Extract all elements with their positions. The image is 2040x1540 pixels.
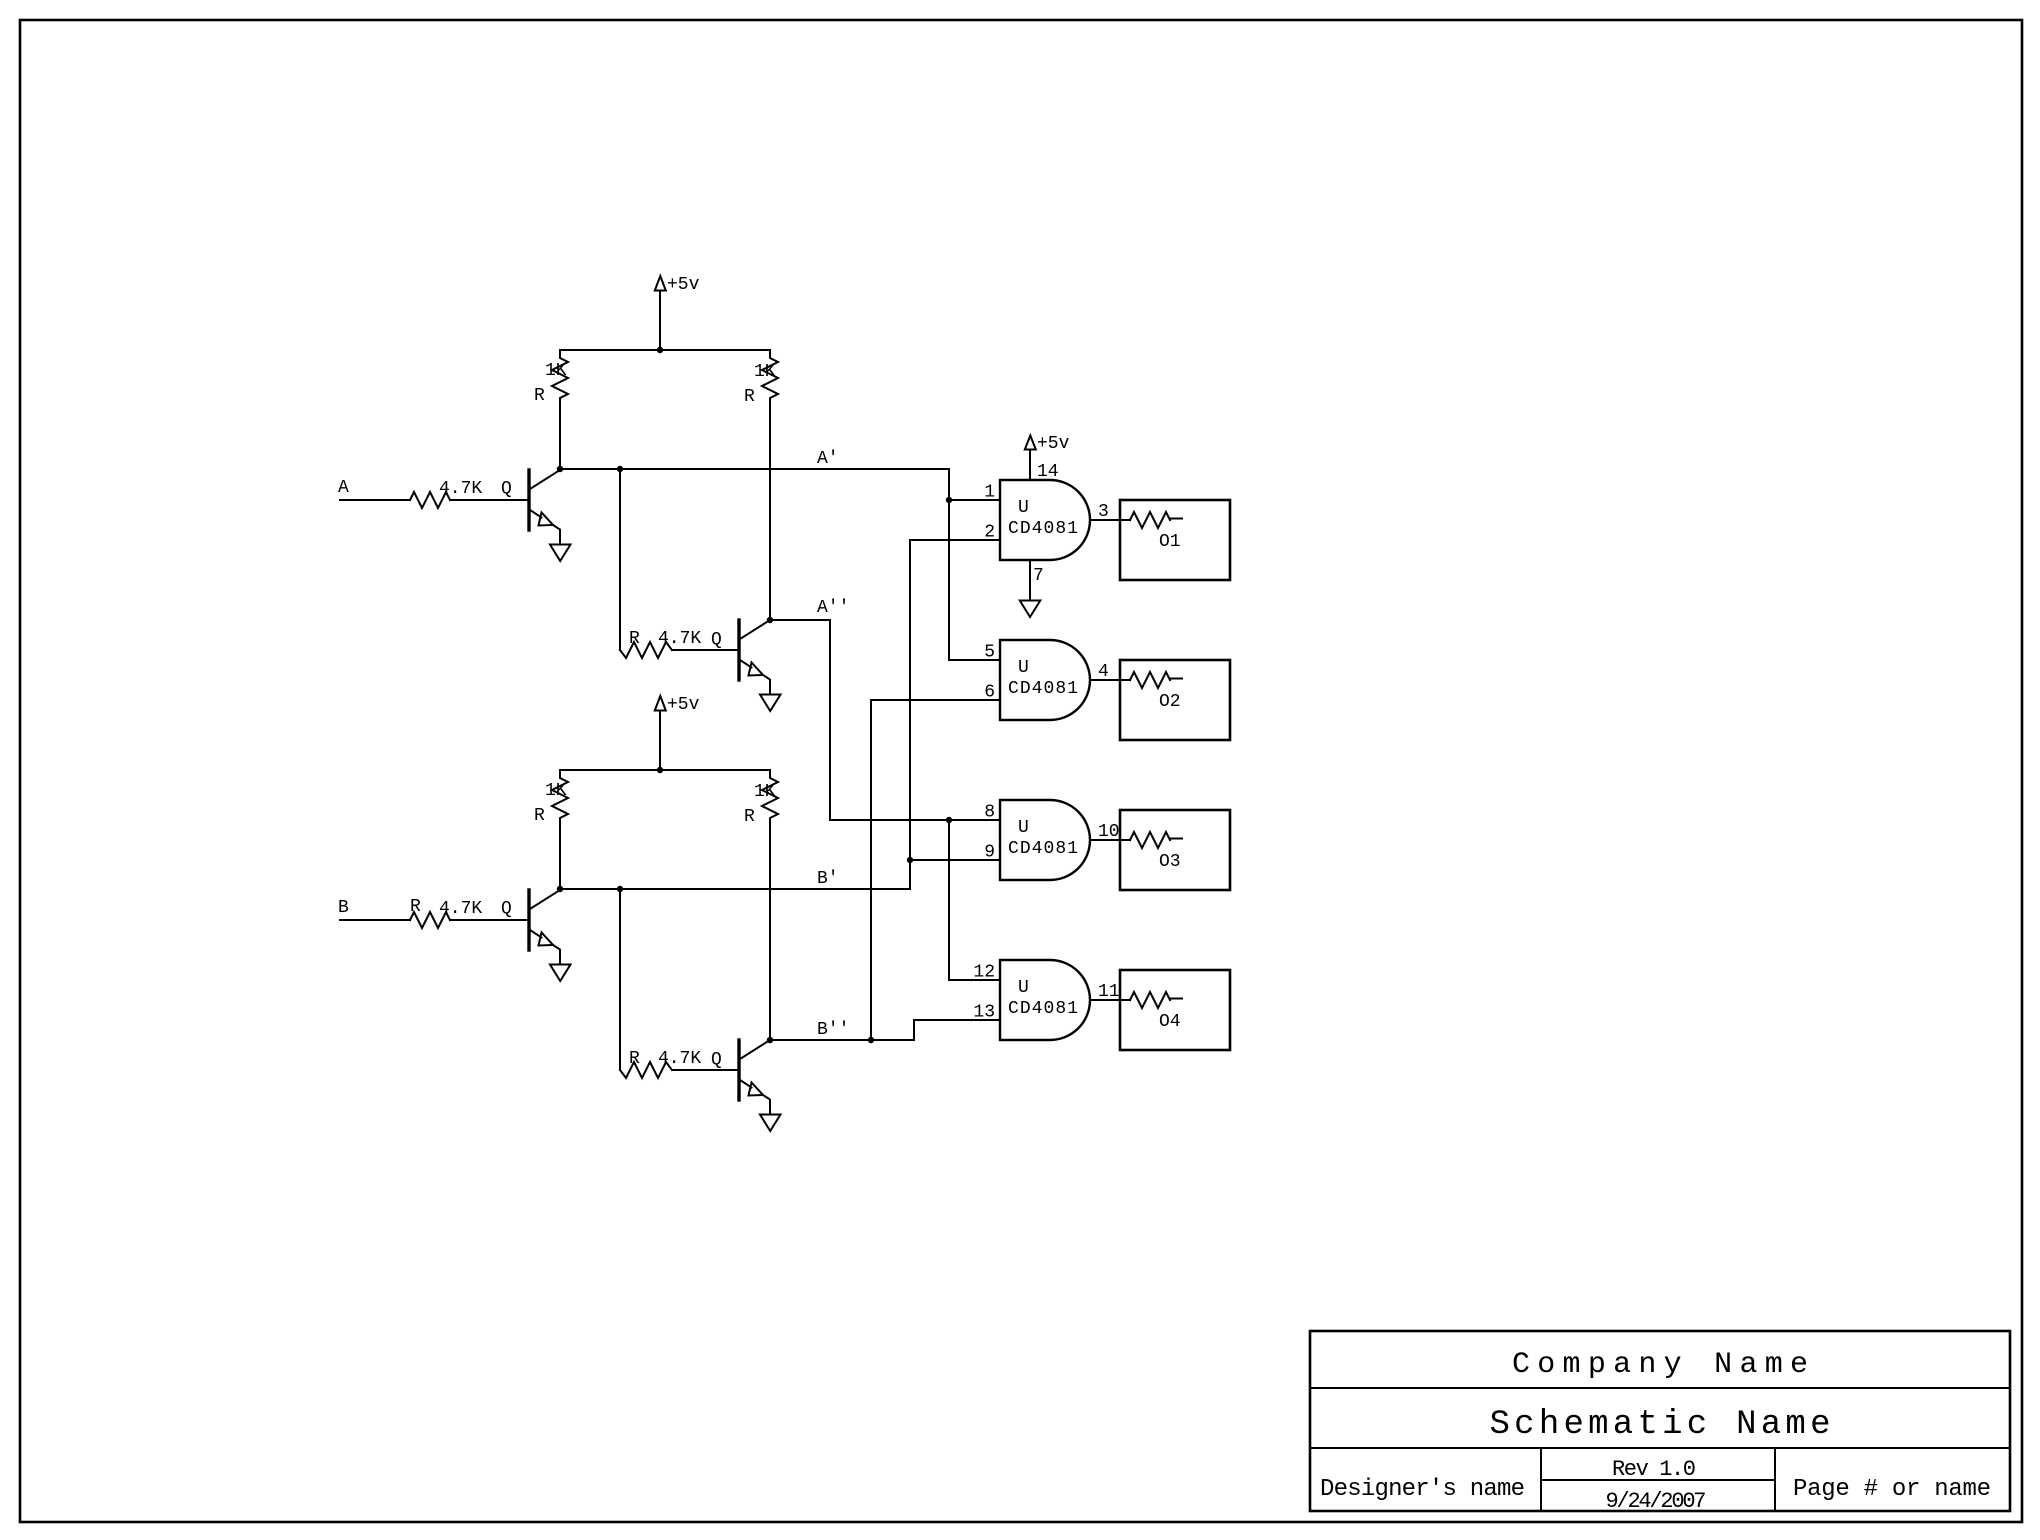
svg-text:R: R — [534, 806, 545, 826]
resistor R 1K (B stage left) — [552, 770, 568, 889]
label pin 1 — [984, 483, 995, 503]
title block frame — [1310, 1331, 2010, 1511]
label 4.7K (stage-2 B) — [658, 1049, 701, 1069]
label O2 — [1159, 692, 1181, 712]
wire B'' to pin 6 — [871, 700, 1000, 1040]
svg-text:R: R — [744, 807, 755, 827]
svg-text:A': A' — [817, 449, 839, 469]
label 4.7K (input B) — [439, 899, 482, 919]
label 1K (right, A stage) — [754, 362, 776, 382]
label pin 9 — [984, 843, 995, 863]
label B' — [817, 869, 839, 889]
junction rail/+5v (B stage) — [657, 767, 663, 773]
junction A'/pin1 — [946, 497, 952, 503]
wire net A'' — [770, 620, 1000, 820]
label CD4081 (gate 3) — [1008, 839, 1078, 859]
label pin 3 — [1098, 502, 1109, 522]
wire stage-2 resistor to base (A) — [672, 649, 739, 651]
svg-text:12: 12 — [973, 963, 995, 983]
wire +5v rail (A stage) — [560, 349, 770, 351]
label Q (input transistor A) — [501, 479, 512, 499]
node A input label — [338, 478, 349, 498]
svg-text:5: 5 — [984, 643, 995, 663]
label R (left, A stage) — [534, 386, 545, 406]
output box O3 — [1120, 810, 1230, 890]
ground (B inverter 1 emitter) — [550, 965, 571, 982]
label 1K (left, A stage) — [545, 361, 567, 381]
title: Company Name — [1512, 1348, 1808, 1382]
label R (left, B stage) — [534, 806, 545, 826]
svg-text:Q: Q — [501, 899, 512, 919]
svg-text:Q: Q — [711, 630, 722, 650]
wire pin 9 stub — [910, 859, 1000, 861]
wire +5v rail (B stage) — [560, 769, 770, 771]
output box O4 — [1120, 970, 1230, 1050]
node B input label — [338, 898, 349, 918]
ground (gate 1 pin 7) — [1020, 560, 1041, 617]
wire net A' — [560, 469, 1000, 660]
resistor 4.7K (input A) — [410, 492, 450, 508]
svg-text:O1: O1 — [1159, 532, 1181, 552]
label pin 8 — [984, 803, 995, 823]
label 1K (right, B stage) — [754, 782, 776, 802]
and-gate U CD4081 (#1) — [1000, 480, 1090, 560]
junction stage-2 branch (B) — [617, 886, 623, 892]
svg-text:+5v: +5v — [667, 695, 700, 715]
resistor R 1K (A stage right) — [762, 350, 778, 620]
label R (stage-2 A) — [629, 629, 640, 649]
label +5v (A stage) — [667, 275, 700, 295]
label O1 — [1159, 532, 1181, 552]
title: Page # or name — [1793, 1476, 1991, 1503]
transistor Q (B inverter 2) — [739, 1040, 770, 1115]
label pin 14 — [1037, 462, 1059, 482]
svg-text:R: R — [534, 386, 545, 406]
svg-text:4.7K: 4.7K — [439, 479, 482, 499]
and-gate U CD4081 (#3) — [1000, 800, 1090, 880]
svg-text:A'': A'' — [817, 598, 849, 618]
transistor Q (A inverter 2) — [739, 620, 770, 695]
label U (gate 4) — [1018, 978, 1029, 998]
svg-text:CD4081: CD4081 — [1008, 999, 1078, 1019]
svg-text:10: 10 — [1098, 822, 1120, 842]
svg-text:B': B' — [817, 869, 839, 889]
svg-text:U: U — [1018, 978, 1029, 998]
svg-text:3: 3 — [1098, 502, 1109, 522]
wire input A — [340, 499, 410, 501]
label pin 12 — [973, 963, 995, 983]
label 4.7K (stage-2 A) — [658, 629, 701, 649]
label CD4081 (gate 2) — [1008, 679, 1078, 699]
output box O2 — [1120, 660, 1230, 740]
wire resistor to base (A) — [450, 499, 529, 501]
wire net B'' — [770, 1020, 1000, 1040]
label Q (stage-2 A) — [711, 630, 722, 650]
title block vertical divider right — [1774, 1448, 1776, 1511]
resistor 4.7K (input B) — [410, 912, 450, 928]
svg-text:1K: 1K — [754, 782, 776, 802]
label U (gate 1) — [1018, 498, 1029, 518]
svg-text:O4: O4 — [1159, 1012, 1181, 1032]
resistor (load O1) — [1120, 512, 1182, 528]
wire pin 1 stub — [949, 499, 1000, 501]
label 1K (left, B stage) — [545, 781, 567, 801]
svg-text:B: B — [338, 898, 349, 918]
label O3 — [1159, 852, 1181, 872]
svg-text:1K: 1K — [545, 781, 567, 801]
label R (stage-2 B) — [629, 1049, 640, 1069]
title block rev/date divider — [1541, 1479, 1775, 1481]
label pin 11 — [1098, 982, 1120, 1002]
svg-text:7: 7 — [1033, 566, 1044, 586]
wire net B' — [560, 540, 1000, 889]
svg-text:CD4081: CD4081 — [1008, 519, 1078, 539]
resistor (load O3) — [1120, 832, 1182, 848]
svg-text:O2: O2 — [1159, 692, 1181, 712]
label 4.7K (input A) — [439, 479, 482, 499]
label R (right, A stage) — [744, 387, 755, 407]
title: date 9/24/2007 — [1606, 1489, 1707, 1514]
svg-text:8: 8 — [984, 803, 995, 823]
label +5v (B stage) — [667, 695, 700, 715]
title block vertical divider left — [1540, 1448, 1542, 1511]
junction A''/pin8 — [946, 817, 952, 823]
label pin 7 — [1033, 566, 1044, 586]
svg-text:2: 2 — [984, 523, 995, 543]
svg-text:4.7K: 4.7K — [658, 629, 701, 649]
svg-text:+5v: +5v — [667, 275, 700, 295]
and-gate U CD4081 (#4) — [1000, 960, 1090, 1040]
wire input B — [340, 919, 410, 921]
svg-text:U: U — [1018, 818, 1029, 838]
power +5v (B stage) — [655, 696, 666, 770]
label pin 13 — [973, 1003, 995, 1023]
label R (right, B stage) — [744, 807, 755, 827]
power +5v (gate 1 pin 14) — [1025, 436, 1036, 481]
label pin 6 — [984, 683, 995, 703]
title: Rev 1.0 — [1612, 1457, 1696, 1482]
title: Schematic Name — [1490, 1406, 1831, 1444]
wire output pin 10 — [1090, 839, 1120, 841]
svg-text:B'': B'' — [817, 1020, 849, 1040]
label R (input resistor, B stage) — [410, 897, 421, 917]
svg-text:14: 14 — [1037, 462, 1059, 482]
svg-text:9: 9 — [984, 843, 995, 863]
svg-text:4: 4 — [1098, 662, 1109, 682]
ground (A inverter 1 emitter) — [550, 545, 571, 562]
junction collector 1 (A') — [557, 466, 563, 472]
resistor (load O2) — [1120, 672, 1182, 688]
ground (A inverter 2 emitter) — [760, 695, 781, 712]
svg-text:11: 11 — [1098, 982, 1120, 1002]
wire stage-2 resistor to base (B) — [672, 1069, 739, 1071]
junction collector 1 (B') — [557, 886, 563, 892]
svg-text:R: R — [629, 1049, 640, 1069]
wire output pin 3 — [1090, 519, 1120, 521]
svg-text:1K: 1K — [754, 362, 776, 382]
junction stage-2 branch (A) — [617, 466, 623, 472]
output box O1 — [1120, 500, 1230, 580]
svg-text:R: R — [629, 629, 640, 649]
transistor Q (B inverter 1) — [529, 890, 560, 965]
label Q (input transistor B) — [501, 899, 512, 919]
label A' — [817, 449, 839, 469]
ground (B inverter 2 emitter) — [760, 1115, 781, 1132]
label U (gate 3) — [1018, 818, 1029, 838]
svg-text:CD4081: CD4081 — [1008, 679, 1078, 699]
svg-text:Q: Q — [711, 1050, 722, 1070]
label pin 10 — [1098, 822, 1120, 842]
label O4 — [1159, 1012, 1181, 1032]
resistor R 4.7K (B stage 2) — [620, 1062, 672, 1078]
svg-text:U: U — [1018, 498, 1029, 518]
junction B'/pin9 — [907, 857, 913, 863]
svg-text:9/24/2007: 9/24/2007 — [1606, 1489, 1707, 1514]
label Q (stage-2 B) — [711, 1050, 722, 1070]
svg-text:6: 6 — [984, 683, 995, 703]
svg-text:R: R — [744, 387, 755, 407]
label B'' — [817, 1020, 849, 1040]
label CD4081 (gate 4) — [1008, 999, 1078, 1019]
power +5v (A stage) — [655, 276, 666, 350]
svg-text:4.7K: 4.7K — [439, 899, 482, 919]
title block divider 1 — [1310, 1387, 2010, 1389]
wire resistor to base (B) — [450, 919, 529, 921]
wire output pin 4 — [1090, 679, 1120, 681]
wire A'' to pin 12 — [949, 820, 1000, 980]
junction collector 2 (A'') — [767, 617, 773, 623]
and-gate U CD4081 (#2) — [1000, 640, 1090, 720]
label +5v (gate 1) — [1037, 434, 1070, 454]
label A'' — [817, 598, 849, 618]
title block divider 2 — [1310, 1447, 2010, 1449]
svg-text:1: 1 — [984, 483, 995, 503]
svg-text:Designer's name: Designer's name — [1320, 1476, 1525, 1503]
svg-text:Page # or name: Page # or name — [1793, 1476, 1991, 1503]
svg-text:13: 13 — [973, 1003, 995, 1023]
wire output pin 11 — [1090, 999, 1120, 1001]
resistor R 4.7K (A stage 2) — [620, 642, 672, 658]
wire B' to stage-2 resistor — [619, 889, 621, 1070]
label U (gate 2) — [1018, 658, 1029, 678]
label pin 2 — [984, 523, 995, 543]
svg-text:U: U — [1018, 658, 1029, 678]
svg-text:Rev 1.0: Rev 1.0 — [1612, 1457, 1696, 1482]
svg-text:4.7K: 4.7K — [658, 1049, 701, 1069]
label CD4081 (gate 1) — [1008, 519, 1078, 539]
junction rail/+5v (A stage) — [657, 347, 663, 353]
junction B''/pin6 — [868, 1037, 874, 1043]
junction collector 2 (B'') — [767, 1037, 773, 1043]
label pin 4 — [1098, 662, 1109, 682]
svg-text:+5v: +5v — [1037, 434, 1070, 454]
svg-text:1K: 1K — [545, 361, 567, 381]
svg-text:A: A — [338, 478, 349, 498]
svg-text:Q: Q — [501, 479, 512, 499]
svg-text:O3: O3 — [1159, 852, 1181, 872]
resistor R 1K (A stage left) — [552, 350, 568, 469]
resistor R 1K (B stage right) — [762, 770, 778, 1040]
transistor Q (A inverter 1) — [529, 470, 560, 545]
wire A' to stage-2 resistor — [619, 469, 621, 650]
title: Designer's name — [1320, 1476, 1525, 1503]
resistor (load O4) — [1120, 992, 1182, 1008]
label pin 5 — [984, 643, 995, 663]
svg-text:CD4081: CD4081 — [1008, 839, 1078, 859]
